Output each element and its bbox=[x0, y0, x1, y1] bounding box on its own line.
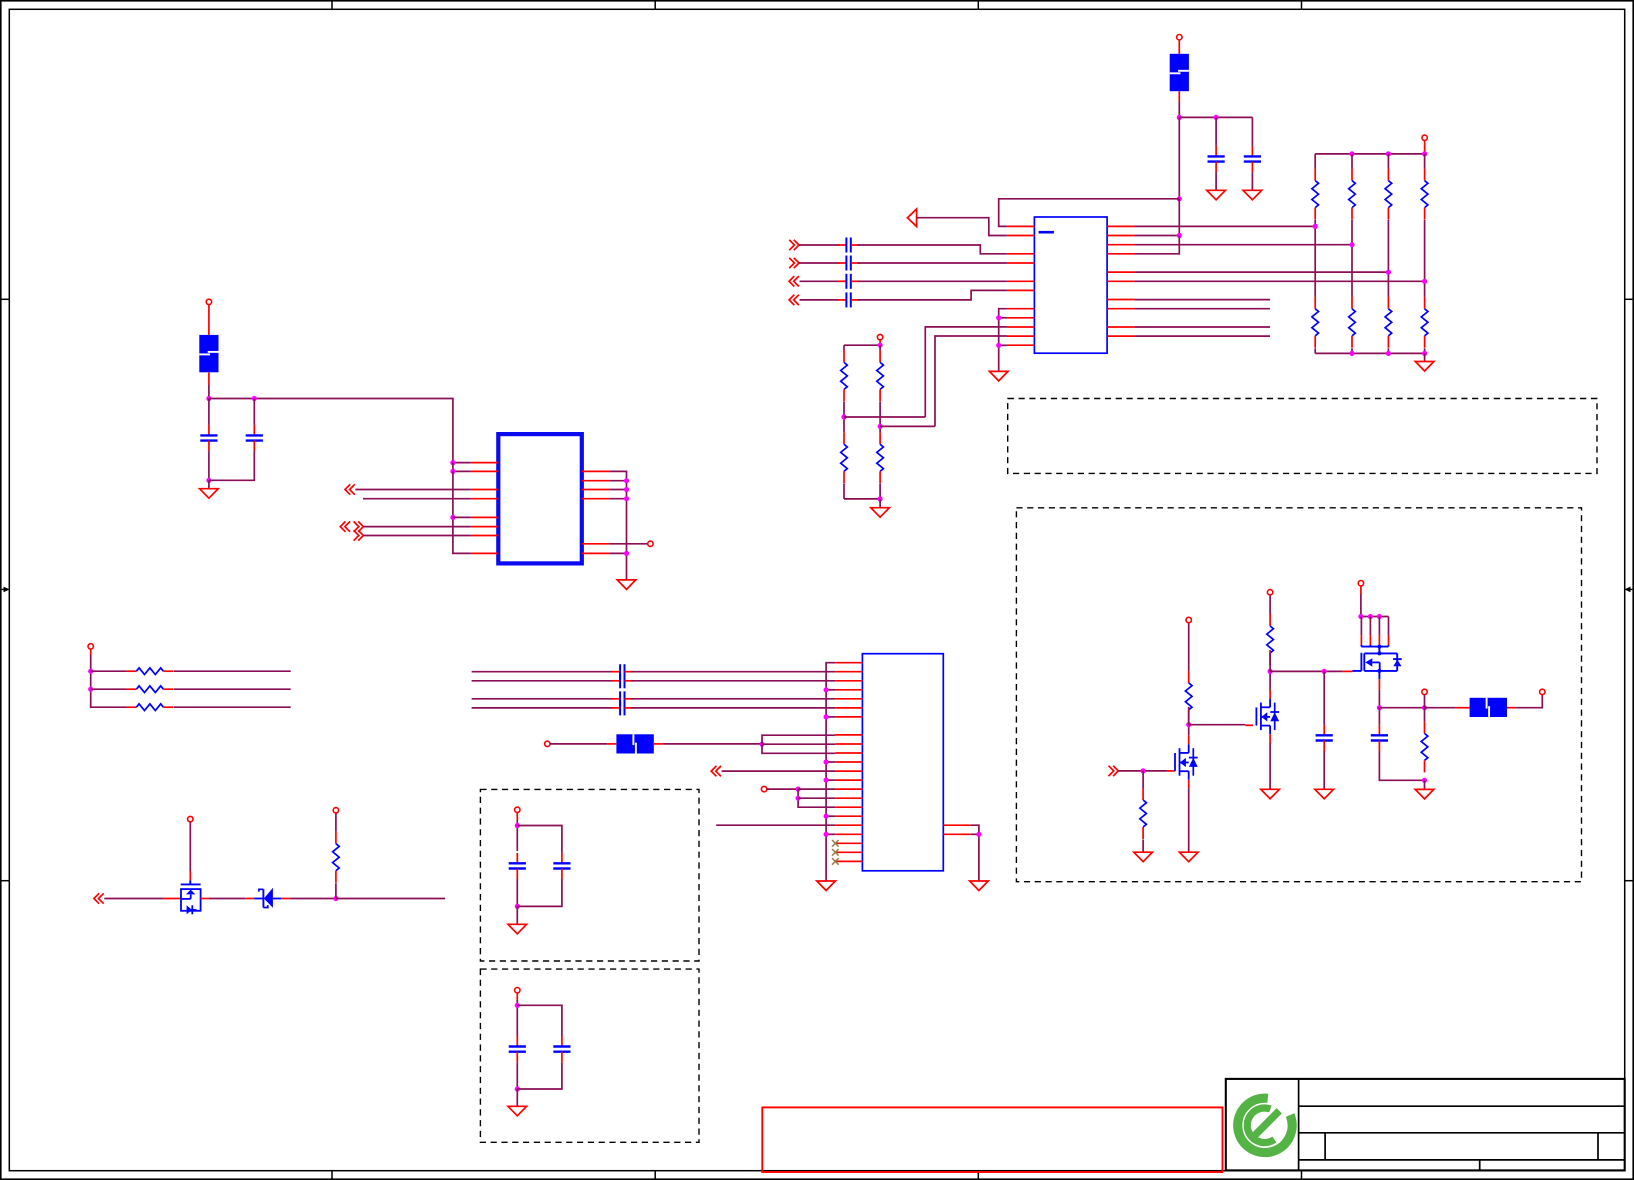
border centering mark right bbox=[1624, 587, 1634, 593]
transistor Q3 source pins bbox=[1361, 617, 1388, 647]
wire C1 top lead bbox=[1215, 117, 1217, 145]
lead Q3 gate bbox=[1342, 670, 1352, 672]
junction RN top bus col3 bbox=[1386, 151, 1391, 156]
resistor R9 bbox=[841, 350, 848, 401]
connector P1 left pin row2 bbox=[835, 680, 862, 682]
junction node A cap C1 tap bbox=[1214, 115, 1219, 120]
connector P1 left pin row8 bbox=[835, 734, 862, 736]
wire RN col1 mid bbox=[1314, 220, 1316, 297]
connector P1 left pin row16 bbox=[835, 806, 862, 808]
ground under C2 bbox=[1243, 190, 1262, 200]
connector P1 left pin row3 bbox=[835, 689, 862, 691]
wire node F right bbox=[336, 898, 445, 900]
netport chevrons SIG2 bbox=[789, 258, 799, 268]
lead Q2 source bbox=[1269, 734, 1271, 743]
wire RN col4 bottom bbox=[1424, 348, 1426, 353]
diode D1 bbox=[245, 888, 290, 908]
netport chevrons U2A bbox=[345, 484, 355, 494]
junction trio row2 bbox=[88, 687, 93, 692]
connector P1 left pin row0 bbox=[835, 662, 862, 664]
capacitor C12 bbox=[837, 256, 859, 271]
wire boxC bottom link bbox=[517, 1062, 562, 1089]
wire divider col1 to U1 k11 bbox=[925, 327, 1007, 417]
power port circle VOUT2 bbox=[1540, 689, 1545, 694]
IC U2 right pin row1 bbox=[582, 470, 610, 472]
junction RN bottom bus col4 bbox=[1422, 351, 1427, 356]
wire VOUT1 stub bbox=[1424, 695, 1426, 708]
IC U2 left pin row4 bbox=[471, 498, 499, 500]
junction node D cap C4 tap bbox=[252, 396, 257, 401]
lead VCC12 bbox=[1360, 586, 1362, 594]
wire U2D bbox=[363, 535, 470, 537]
power port circle VCC5 bbox=[88, 644, 93, 649]
netport chevrons P1A bbox=[711, 766, 721, 776]
wire boxB to ground bbox=[516, 906, 518, 924]
connector P1 left pin row12 bbox=[835, 770, 862, 772]
junction RN col3 tap bbox=[1386, 270, 1391, 275]
wire F4 to VOUT2 bbox=[1516, 695, 1543, 708]
red annotation rectangle bbox=[762, 1107, 1222, 1172]
wire VIN1 to F3 bbox=[550, 743, 607, 745]
fuse F3 bbox=[616, 734, 653, 753]
ground in box C bbox=[508, 1106, 527, 1116]
wire R18 bottom to node K bbox=[1188, 707, 1190, 725]
wire divider col2 tap out bbox=[880, 425, 935, 427]
power port circle VCC4 bbox=[206, 299, 211, 304]
wire trio bus bbox=[91, 655, 127, 707]
wire U1 k6 to RN col4 bbox=[1135, 280, 1425, 282]
junction P1 bus row6 bbox=[824, 714, 829, 719]
lead Q1 gate bbox=[1167, 770, 1175, 772]
junction node F bbox=[333, 896, 338, 901]
junction node C bbox=[1177, 233, 1182, 238]
wire divider to ground bbox=[879, 499, 881, 508]
lead F2 top bbox=[208, 305, 210, 335]
wire boxB bottom bbox=[516, 879, 518, 906]
IC U2 left pin row7 bbox=[471, 526, 499, 528]
resistor R17 bbox=[1140, 788, 1147, 839]
wire C4 bottom lead bbox=[209, 451, 254, 480]
junction node K bbox=[1186, 722, 1191, 727]
netport arrow IN1 bbox=[907, 209, 916, 227]
netport chevrons SIG3 bbox=[789, 276, 799, 286]
resistor R8 bbox=[1421, 297, 1428, 348]
junction node B bbox=[1177, 196, 1182, 201]
junction RN col4 tap bbox=[1422, 279, 1427, 284]
border tick right bbox=[1625, 298, 1634, 300]
wire divider col1 mid bbox=[843, 402, 845, 433]
wire C17 net left bbox=[472, 698, 614, 700]
ground under P1 right bbox=[970, 881, 989, 891]
wire C18 net left bbox=[472, 707, 614, 709]
junction node D bbox=[206, 396, 211, 401]
junction U2 right bus k2 bbox=[624, 478, 629, 483]
border centering mark left bbox=[0, 587, 10, 593]
power port circle VCC12 bbox=[1358, 581, 1363, 586]
power port circle VCC6 bbox=[188, 816, 193, 821]
wire node C to U1 right k3 bbox=[1135, 236, 1180, 254]
dashed box B bbox=[480, 789, 699, 961]
wire node K to Q2 gate bbox=[1189, 724, 1246, 726]
wire VIN2 to node H bbox=[767, 788, 798, 790]
wire RN col1 top bbox=[1314, 154, 1316, 169]
wire P1 bus tap row3 bbox=[826, 689, 835, 691]
wire Q3 drain to node M bbox=[1378, 690, 1380, 708]
wire node E to ground bbox=[208, 480, 210, 488]
IC U2 bbox=[498, 434, 582, 563]
wire Q1 source to ground bbox=[1188, 788, 1190, 852]
lead Q1 drain bbox=[1188, 735, 1190, 744]
junction Q3 bus p1 bbox=[1358, 614, 1363, 619]
connector P1 bbox=[862, 654, 943, 871]
wire P1 right bus bbox=[971, 825, 979, 881]
capacitor C16 bbox=[611, 673, 633, 688]
junction RN col2 tap bbox=[1349, 242, 1354, 247]
power port circle VIN1 bbox=[545, 741, 550, 746]
IC U2 right pin row10 bbox=[582, 552, 610, 554]
junction P1 right row19 bbox=[976, 832, 981, 837]
lead F2 bottom bbox=[208, 372, 210, 385]
wire U2 right k2 tap bbox=[609, 480, 626, 482]
IC U2 right pin row4 bbox=[582, 498, 610, 500]
power port circle OUT1 bbox=[648, 541, 653, 546]
wire boxB top link bbox=[517, 826, 562, 853]
wire SIG3 right segment bbox=[858, 280, 1007, 282]
dashed box A bbox=[1016, 508, 1581, 882]
wire U2 right k3 tap bbox=[609, 489, 626, 491]
power port circle VCC2 bbox=[1422, 135, 1427, 140]
junction node N bbox=[1422, 705, 1427, 710]
wire RN col3 top bbox=[1387, 154, 1389, 169]
wire node N to F4 bbox=[1425, 707, 1456, 709]
wire U2 right k1 elbow bbox=[609, 471, 626, 580]
wire EN1 to Q1 gate bbox=[1118, 770, 1167, 772]
junction boxB top bbox=[515, 823, 520, 828]
wire U2 right k10 tap bbox=[609, 552, 626, 554]
IC U1 right pin row0 bbox=[1107, 225, 1135, 227]
capacitor C7 bbox=[509, 1036, 526, 1062]
wire SIG1 right segment bbox=[858, 245, 1007, 254]
wire C15 net right bbox=[631, 671, 835, 673]
junction P1 bus row11 bbox=[824, 759, 829, 764]
wire F3 to node G bbox=[663, 743, 762, 745]
junction U1 bus k13 bbox=[996, 343, 1001, 348]
wire RN to ground bbox=[1424, 353, 1426, 361]
wire C17 net right bbox=[631, 698, 835, 700]
ground under divider bbox=[871, 508, 890, 518]
lead F3 left bbox=[607, 743, 616, 745]
capacitor C11 bbox=[837, 238, 859, 253]
wire C2 top lead bbox=[1251, 117, 1253, 145]
no-connect X P1 row22 bbox=[832, 858, 839, 865]
lead VCC2 bbox=[1424, 141, 1426, 154]
wire C3 bottom lead bbox=[208, 451, 210, 480]
IC U1 right pin row1 bbox=[1107, 235, 1135, 237]
transistor Q4 right lead bbox=[201, 898, 209, 900]
IC U1 left pin row7 bbox=[1007, 289, 1035, 291]
wire U2 right k4 tap bbox=[609, 498, 626, 500]
wire divider col1 tap out bbox=[844, 416, 925, 418]
ground under C3 bbox=[200, 489, 219, 499]
connector P1 left pin row13 bbox=[835, 779, 862, 781]
IC U2 left pin row6 bbox=[471, 516, 499, 518]
wire R16 top bbox=[335, 813, 337, 832]
transistor Q3 bbox=[1353, 645, 1402, 680]
capacitor C5 bbox=[509, 853, 526, 879]
wire node A down bbox=[1178, 117, 1180, 198]
wire U1 k10 to bus bbox=[999, 317, 1007, 319]
wire C16 net right bbox=[631, 680, 835, 682]
wire boxC top bbox=[516, 1000, 518, 1036]
wire RN col2 bottom bbox=[1351, 348, 1353, 353]
wire node J down bbox=[1142, 771, 1144, 788]
wire SW1 to Q4 bbox=[104, 898, 163, 900]
junction trio row1 bbox=[88, 669, 93, 674]
junction Q3 bus p2 bbox=[1368, 614, 1373, 619]
wire trio row3 out bbox=[174, 706, 291, 708]
wire node H down bbox=[798, 789, 835, 807]
border tick top bbox=[331, 0, 333, 9]
wire divider top bus bbox=[844, 344, 880, 346]
wire R18 top bbox=[1188, 623, 1190, 671]
wire node B to U1 pin1 bbox=[999, 199, 1180, 227]
ground under RN bbox=[1415, 362, 1434, 372]
IC U1 left pin row1 bbox=[1007, 235, 1035, 237]
wire boxC to ground bbox=[516, 1089, 518, 1106]
wire C18 net right bbox=[631, 707, 835, 709]
netport chevrons SIG4 bbox=[789, 295, 799, 305]
border tick top bbox=[654, 0, 656, 9]
wire SIG2 right segment bbox=[858, 262, 1007, 264]
IC U2 left pin row3 bbox=[471, 489, 499, 491]
wire C2 to ground bbox=[1251, 172, 1253, 190]
no-connect X P1 row21 bbox=[832, 849, 839, 856]
lead F3 right bbox=[654, 743, 663, 745]
wire U1 ground bus bbox=[999, 309, 1007, 372]
power port circle VCC7 bbox=[333, 808, 338, 813]
connector P1 left pin row20 bbox=[835, 842, 862, 844]
wire trio row2 out bbox=[174, 688, 291, 690]
wire divider col2 bottom bbox=[879, 484, 881, 499]
wire U1 k2 to RN col2 bbox=[1135, 244, 1352, 246]
wire node G to row9 bbox=[762, 743, 835, 745]
junction node G bbox=[759, 742, 764, 747]
power port circle VCC10 bbox=[1186, 617, 1191, 622]
wire SIG4 left segment bbox=[800, 299, 840, 301]
IC U2 right pin row3 bbox=[582, 489, 610, 491]
wire RN col4 top bbox=[1424, 154, 1426, 169]
border tick right bbox=[1625, 880, 1634, 882]
wire RN col4 mid bbox=[1424, 220, 1426, 297]
wire node H to row15 bbox=[798, 797, 835, 799]
connector P1 right pin row18 bbox=[943, 824, 971, 826]
capacitor C20 bbox=[1371, 725, 1388, 751]
connector P1 left pin row1 bbox=[835, 671, 862, 673]
wire P1 bus tap row13 bbox=[826, 779, 835, 781]
wire C15 net left bbox=[472, 671, 614, 673]
wire U1 k5 to RN col3 bbox=[1135, 271, 1389, 273]
wire VCC12 to Q3 bus bbox=[1360, 594, 1362, 617]
netport chevrons SIG1 bbox=[789, 240, 799, 250]
wire RN col2 mid bbox=[1351, 220, 1353, 297]
power port circle VOUT1 bbox=[1422, 689, 1427, 694]
capacitor C18 bbox=[611, 700, 633, 715]
IC U1 left pin row6 bbox=[1007, 280, 1035, 282]
wire node H to row14 bbox=[798, 788, 835, 790]
connector P1 left pin row9 bbox=[835, 743, 862, 745]
capacitor C19 bbox=[1316, 725, 1333, 751]
power port circle VIN2 bbox=[761, 786, 766, 791]
resistor R12 bbox=[877, 432, 884, 483]
wire RN col3 mid bbox=[1387, 220, 1389, 297]
ground in box B bbox=[508, 924, 527, 934]
fuse F4 bbox=[1470, 698, 1507, 717]
ground under C19 bbox=[1315, 789, 1334, 799]
IC U1 bbox=[1034, 217, 1107, 353]
wire divider col2 to U1 k12 bbox=[935, 336, 1007, 426]
wire U2 left bus to k0 bbox=[453, 462, 471, 464]
junction divider col2 tap bbox=[878, 424, 883, 429]
dashed box D bbox=[1008, 399, 1597, 474]
ground under C1 bbox=[1207, 190, 1226, 200]
junction U2 right bus k10 bbox=[624, 551, 629, 556]
resistor R11 bbox=[841, 432, 848, 483]
wire U2 left bus k0-k1 bbox=[453, 463, 471, 472]
junction RN top bus col4 bbox=[1422, 151, 1427, 156]
wire U2C bbox=[363, 526, 470, 528]
wire C16 net left bbox=[472, 680, 614, 682]
wire U2 k9 to port bbox=[609, 543, 648, 545]
border tick top bbox=[977, 0, 979, 9]
junction node H row15 bbox=[796, 796, 801, 801]
IC U1 right pin row9 bbox=[1107, 308, 1135, 310]
lead F1 top bbox=[1178, 40, 1180, 54]
wire divider col1 bottom bbox=[843, 484, 845, 499]
resistor R10 bbox=[877, 350, 884, 401]
lead VCC5 bbox=[90, 649, 92, 655]
IC U1 right pin row3 bbox=[1107, 253, 1135, 255]
power port circle VCC11 bbox=[1267, 590, 1272, 595]
wire RN bottom bus bbox=[1315, 352, 1424, 354]
junction RN top bus col2 bbox=[1349, 151, 1354, 156]
wire Q2 drain to node L bbox=[1269, 671, 1271, 690]
connector P1 left pin row14 bbox=[835, 788, 862, 790]
ground under Q1 bbox=[1179, 852, 1198, 862]
lead Q4 gate bbox=[189, 871, 191, 880]
wire node D bus right bbox=[209, 399, 453, 463]
wire boxB bottom link bbox=[517, 879, 562, 906]
resistor R14 bbox=[126, 686, 173, 693]
IC U1 right pin row11 bbox=[1107, 326, 1135, 328]
title block bbox=[1226, 1079, 1625, 1171]
connector P1 left pin row5 bbox=[835, 707, 862, 709]
wire trio row2 feed bbox=[91, 688, 127, 690]
wire U1 k8 stub bbox=[1135, 299, 1270, 301]
resistor R3 bbox=[1385, 169, 1392, 220]
wire node P to ground bbox=[1424, 780, 1426, 789]
power port circle VCC9 bbox=[515, 988, 520, 993]
lead Q1 source bbox=[1188, 780, 1190, 789]
junction U2 bus k1 bbox=[450, 469, 455, 474]
border tick left bbox=[0, 880, 9, 882]
IC U1 left pin row11 bbox=[1007, 326, 1035, 328]
lead Q2 gate bbox=[1245, 724, 1253, 726]
IC U1 left pin row0 bbox=[1007, 225, 1035, 227]
ground under Q2 bbox=[1261, 789, 1280, 799]
transistor Q1 bbox=[1175, 744, 1198, 780]
wire RN col1 bottom bbox=[1314, 348, 1316, 353]
wire R17 to ground bbox=[1142, 840, 1144, 853]
resistor R20 bbox=[1421, 721, 1428, 772]
capacitor C3 bbox=[200, 425, 217, 451]
wire node F up bbox=[335, 883, 337, 898]
junction divider col1 tap bbox=[841, 414, 846, 419]
wire node M down bbox=[1378, 708, 1380, 725]
wire R20 top lead bbox=[1424, 708, 1426, 722]
wire P1 bus tap row6 bbox=[826, 716, 835, 718]
power port circle VCC3 bbox=[877, 334, 882, 339]
junction node A bbox=[1177, 115, 1182, 120]
connector P1 left pin row6 bbox=[835, 716, 862, 718]
wire SIG3 left segment bbox=[800, 280, 840, 282]
lead VCC8 bbox=[516, 813, 518, 821]
wire R19 bottom to node L bbox=[1269, 650, 1271, 671]
IC U2 right pin row9 bbox=[582, 543, 610, 545]
border tick bottom bbox=[331, 1171, 333, 1180]
connector P1 left pin row17 bbox=[835, 815, 862, 817]
netport chevrons U2D bbox=[354, 530, 364, 540]
wire RN top bus bbox=[1315, 153, 1424, 155]
lead F4 left bbox=[1456, 707, 1470, 709]
netport chevrons EN1 bbox=[1109, 766, 1119, 776]
wire divider col1 top bbox=[843, 345, 845, 350]
IC U1 right pin row8 bbox=[1107, 299, 1135, 301]
ground under R20 bbox=[1415, 789, 1434, 799]
IC U1 left pin row3 bbox=[1007, 253, 1035, 255]
wire C3 top lead bbox=[208, 399, 210, 425]
border tick bottom bbox=[1301, 1171, 1303, 1180]
border tick bottom bbox=[654, 1171, 656, 1180]
wire SIG4 right segment bbox=[858, 290, 1007, 300]
wire Q4 gate bbox=[189, 822, 191, 871]
dashed box C bbox=[480, 969, 699, 1142]
lead VCC3 bbox=[879, 340, 881, 345]
capacitor C8 bbox=[553, 1036, 570, 1062]
netport chevrons U2C2 bbox=[354, 521, 364, 531]
wire P1 row18 stub bbox=[716, 824, 835, 826]
IC U1 right pin row12 bbox=[1107, 335, 1135, 337]
connector P1 left pin row4 bbox=[835, 698, 862, 700]
IC U1 right pin row5 bbox=[1107, 271, 1135, 273]
resistor R5 bbox=[1312, 297, 1319, 348]
junction P1 bus row3 bbox=[824, 687, 829, 692]
junction node H bbox=[796, 787, 801, 792]
wire U1 k12 stub bbox=[1135, 335, 1270, 337]
IC U1 pin-1 mark bbox=[1039, 231, 1054, 234]
resistor R1 bbox=[1312, 169, 1319, 220]
netport chevrons SW1 bbox=[94, 893, 104, 903]
junction node L bbox=[1268, 669, 1273, 674]
transistor Q4 bbox=[181, 880, 201, 914]
wire C19 top lead bbox=[1323, 671, 1325, 724]
wire C4 top lead bbox=[253, 399, 255, 425]
IC U1 right pin row6 bbox=[1107, 280, 1135, 282]
junction node P bbox=[1422, 778, 1427, 783]
junction node L cap tap bbox=[1322, 669, 1327, 674]
wire U2 bus k6 tap bbox=[453, 516, 471, 518]
wire R19 top bbox=[1269, 595, 1271, 614]
connector P1 left pin row18 bbox=[835, 824, 862, 826]
